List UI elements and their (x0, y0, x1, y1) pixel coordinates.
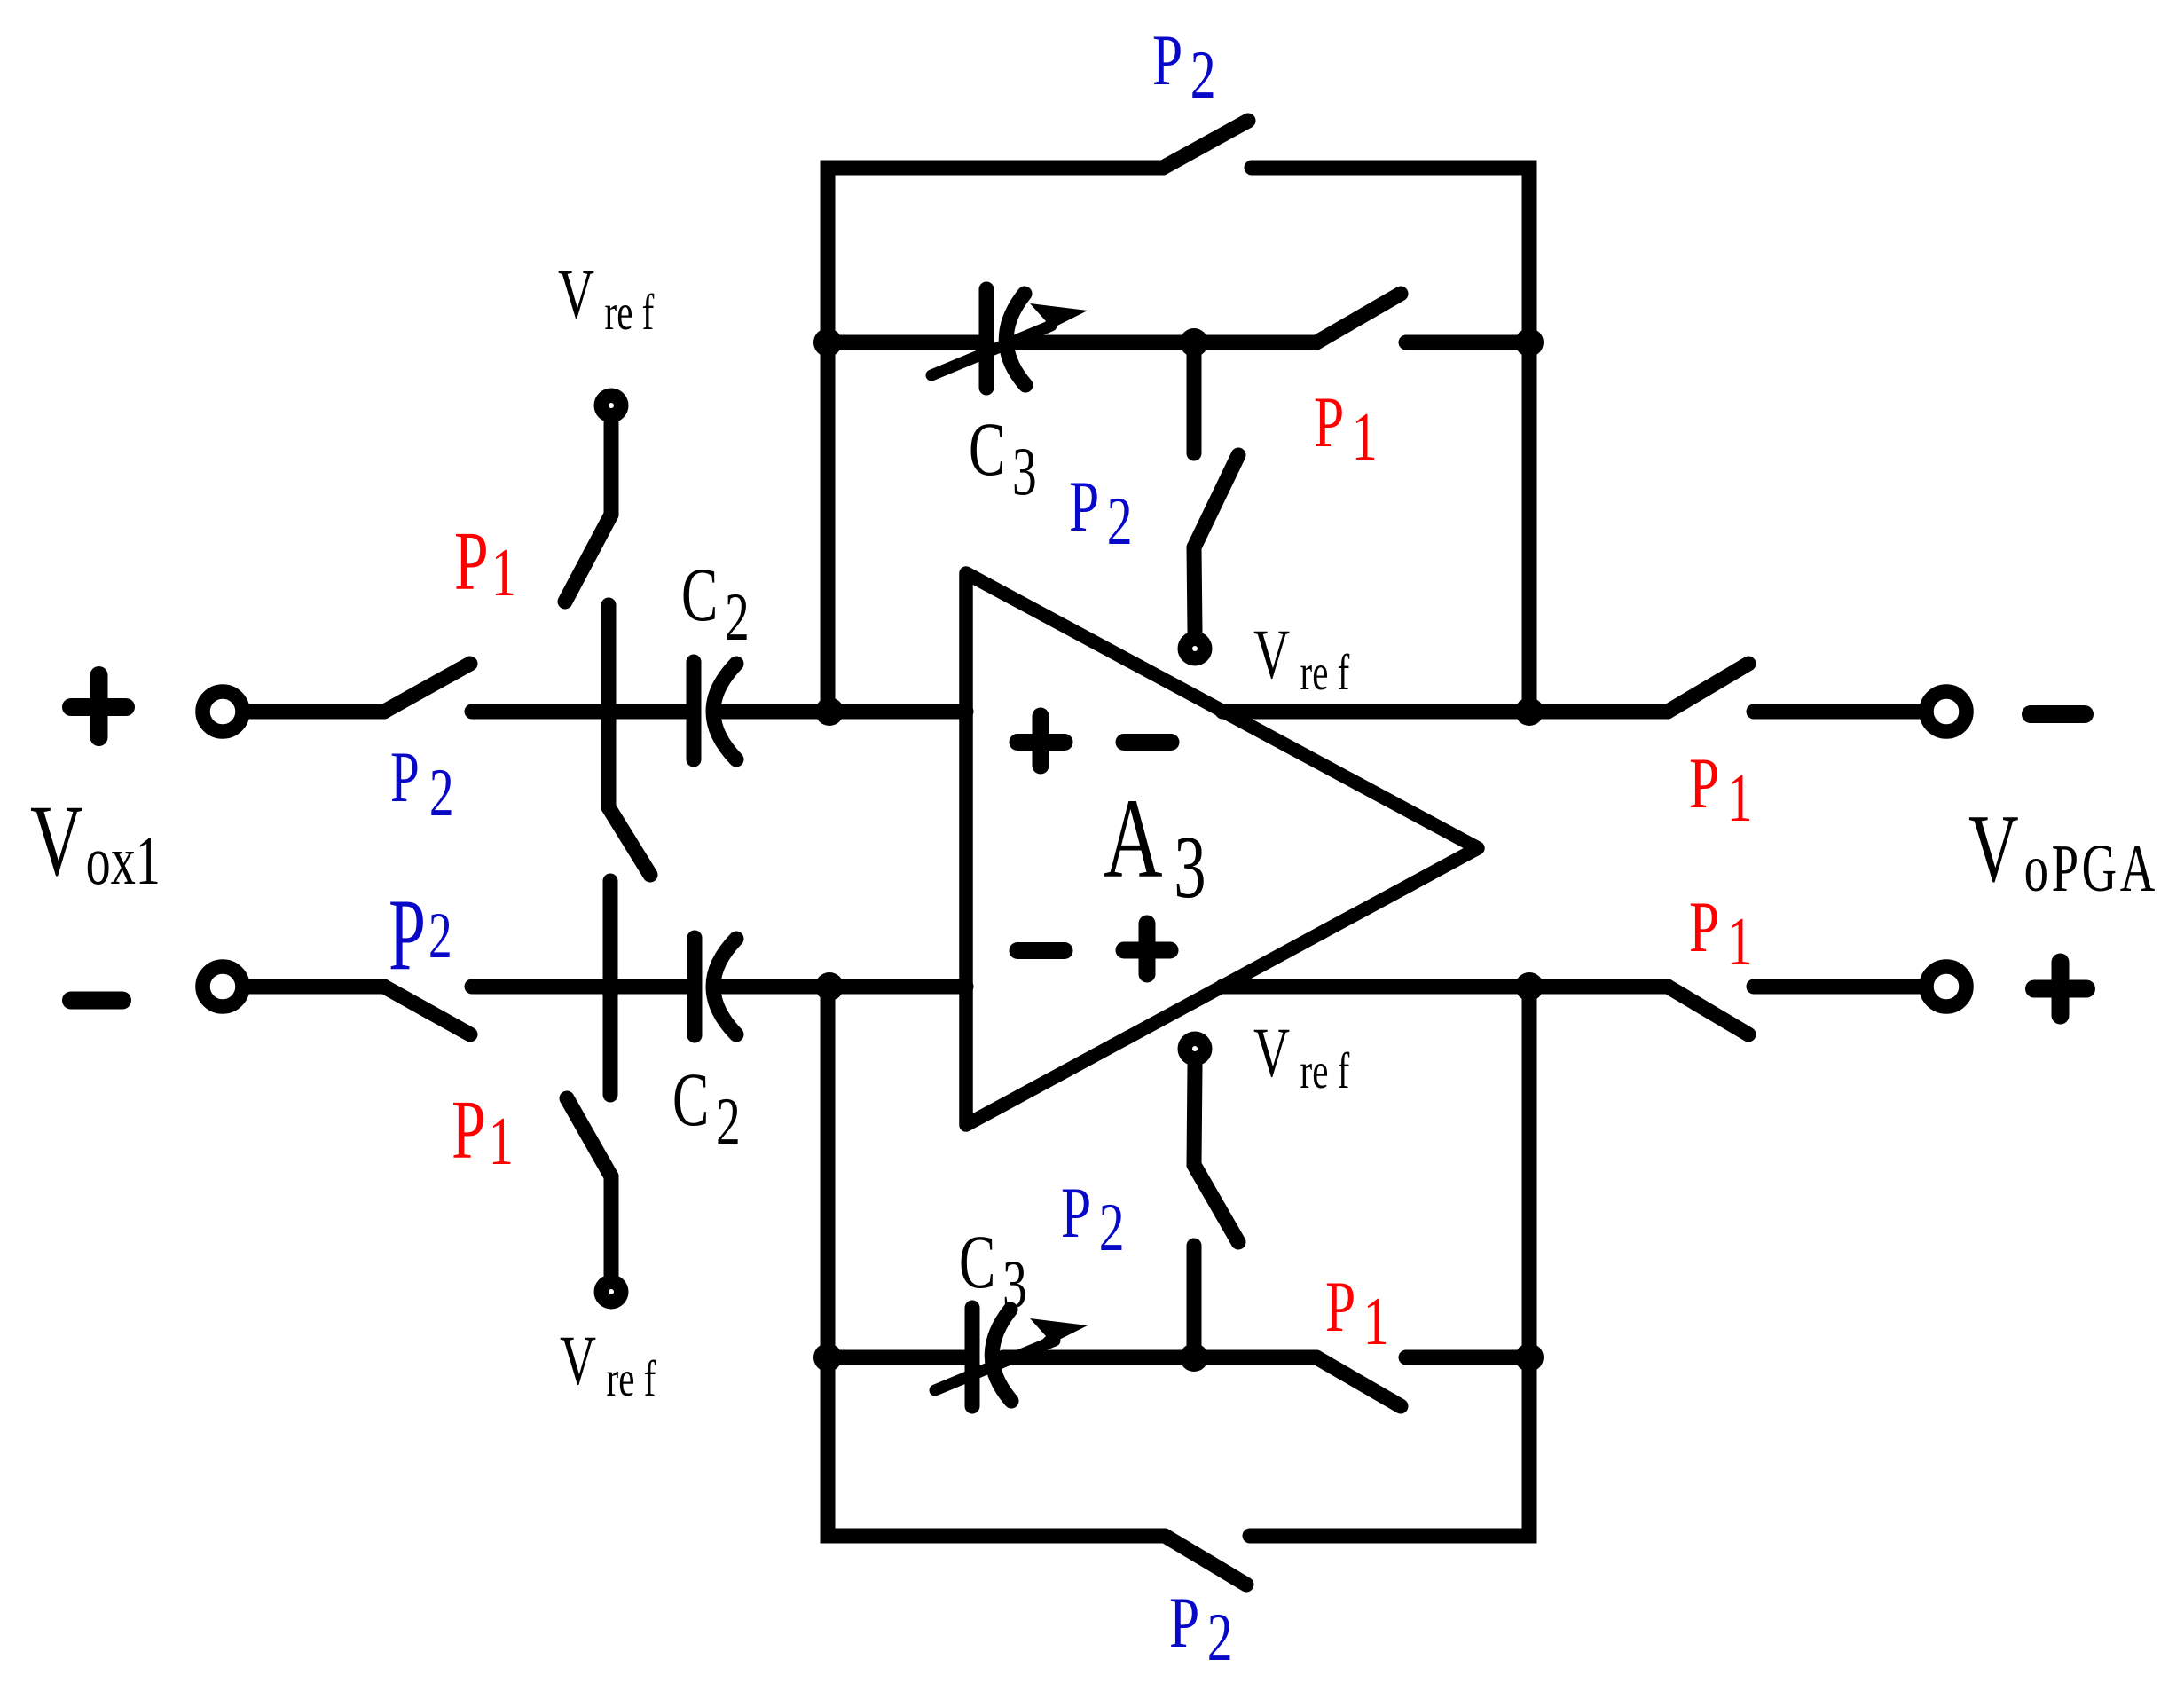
svg-text:2: 2 (1107, 483, 1133, 559)
svg-text:3: 3 (1012, 433, 1037, 509)
svg-text:V: V (30, 784, 83, 897)
svg-text:V: V (1968, 794, 2019, 902)
svg-text:C: C (681, 553, 718, 637)
svg-text:2: 2 (725, 578, 750, 655)
svg-text:P: P (1069, 465, 1099, 547)
svg-text:2: 2 (716, 1083, 741, 1160)
svg-text:C: C (969, 407, 1005, 492)
svg-text:P: P (390, 737, 420, 818)
svg-text:1: 1 (491, 534, 516, 610)
svg-text:re f: re f (607, 1351, 656, 1407)
svg-text:1: 1 (1727, 759, 1753, 836)
svg-text:re f: re f (1300, 645, 1350, 701)
svg-text:C: C (959, 1220, 995, 1304)
svg-text:re f: re f (1300, 1043, 1350, 1099)
svg-text:P: P (452, 1083, 486, 1176)
svg-text:P: P (1689, 885, 1719, 967)
svg-text:P: P (1169, 1581, 1199, 1663)
svg-text:P: P (1689, 742, 1719, 823)
svg-text:2: 2 (429, 754, 454, 830)
svg-text:3: 3 (1002, 1246, 1027, 1322)
svg-text:P: P (389, 878, 426, 992)
svg-text:A: A (1104, 777, 1163, 902)
svg-text:V: V (1253, 616, 1290, 693)
svg-text:V: V (560, 1322, 596, 1399)
svg-text:P: P (1325, 1265, 1355, 1347)
svg-text:1: 1 (489, 1103, 514, 1179)
svg-text:re f: re f (605, 285, 655, 341)
svg-text:P: P (1061, 1171, 1091, 1253)
svg-text:2: 2 (1207, 1599, 1233, 1675)
svg-text:2: 2 (1190, 36, 1216, 113)
svg-text:2: 2 (428, 900, 452, 971)
svg-text:V: V (558, 256, 594, 333)
svg-text:C: C (672, 1058, 709, 1142)
svg-text:1: 1 (1727, 903, 1753, 979)
svg-text:P: P (1314, 381, 1344, 462)
svg-text:1: 1 (1363, 1283, 1389, 1359)
svg-text:oPGA: oPGA (2024, 831, 2158, 906)
svg-text:V: V (1253, 1014, 1290, 1091)
svg-text:ox1: ox1 (86, 822, 161, 899)
svg-text:3: 3 (1174, 819, 1206, 917)
svg-text:2: 2 (1099, 1189, 1125, 1265)
svg-text:P: P (1152, 19, 1182, 100)
svg-text:1: 1 (1352, 398, 1378, 475)
svg-text:P: P (454, 515, 489, 608)
